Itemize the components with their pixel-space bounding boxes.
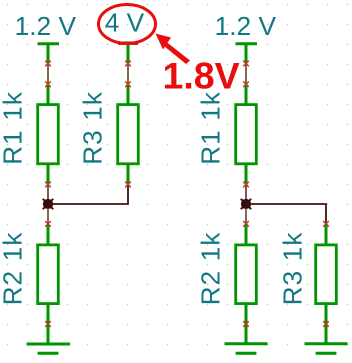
annotation ellipse around 4 V: [99, 5, 156, 44]
svg-text:1.8V: 1.8V: [163, 55, 240, 97]
ground (right, under R3): [305, 344, 348, 354]
svg-text:1.2 V: 1.2 V: [15, 11, 77, 41]
junction node (left divider midpoint): [43, 199, 53, 209]
pin x marks (left column A top): [45, 61, 51, 87]
resistor R2 1k (left): [0, 231, 58, 305]
ground (left): [27, 344, 71, 353]
wire R1 to node (right): [243, 164, 249, 200]
ground (right, under R2): [225, 344, 268, 354]
resistor R3 1k (right): [278, 231, 337, 305]
terminal T3 (right 1.2V): [236, 42, 258, 45]
svg-text:R2 1k: R2 1k: [196, 231, 226, 305]
wire R2 to ground (left): [45, 304, 51, 343]
resistor R1 1k (right): [196, 91, 257, 165]
svg-text:R2 1k: R2 1k: [0, 231, 28, 305]
svg-text:R1 1k: R1 1k: [0, 91, 28, 165]
svg-text:1.2 V: 1.2 V: [215, 11, 277, 41]
wire R2 to ground (right): [243, 304, 249, 343]
resistor R1 1k (left): [0, 91, 58, 165]
svg-text:4 V: 4 V: [105, 7, 145, 37]
wire R1 to node (left): [45, 164, 51, 200]
wire R3 to ground (right): [323, 304, 329, 343]
wire corner to R3 (right column D): [323, 221, 329, 245]
svg-text:R3 1k: R3 1k: [278, 231, 308, 305]
terminal T2 (4V, covered by annotation): [118, 42, 138, 45]
resistor R3 1k (left): [78, 91, 139, 165]
svg-text:R1 1k: R1 1k: [196, 91, 226, 165]
junction node (right divider midpoint): [241, 199, 251, 209]
terminal T1 (left 1.2V): [38, 42, 60, 45]
wire T2 to R3 (left column B): [125, 44, 131, 105]
wire R3 to node, L-shaped (left): [48, 164, 131, 204]
wire node to R3, L-shaped (right): [246, 204, 326, 222]
wire T3 to R1 (right column C): [243, 44, 249, 105]
wire node to R2 (right): [243, 208, 249, 245]
resistor R2 1k (right): [196, 231, 257, 305]
wire T1 to R1 (left column A): [47, 44, 50, 105]
annotation arrow: [156, 34, 191, 65]
svg-text:R3 1k: R3 1k: [78, 91, 108, 165]
wire node to R2 (left): [45, 208, 51, 245]
